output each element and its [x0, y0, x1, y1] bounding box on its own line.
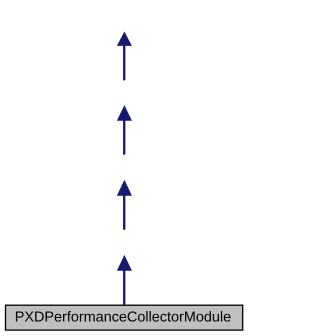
inheritance arrow 1 (topmost): [117, 32, 132, 81]
inheritance arrow 2: [117, 105, 132, 155]
inheritance arrow 3: [117, 180, 132, 230]
class box PXDPerformanceCollectorModule: [6, 305, 243, 330]
inheritance arrow 4 (into class box): [117, 255, 132, 305]
class name label: [16, 311, 231, 322]
